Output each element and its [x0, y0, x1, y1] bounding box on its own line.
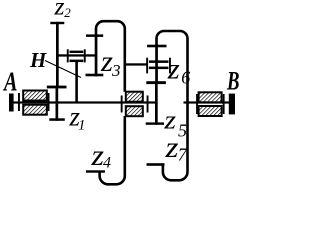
svg-text:B: B — [226, 67, 239, 96]
gear z6 top cap (mesh with ring z7) — [147, 45, 166, 48]
bearing A right shoulder dash — [48, 93, 50, 111]
gear z2 line — [56, 22, 59, 88]
wire main axis B-side — [184, 101, 230, 103]
label H leader line — [45, 61, 81, 78]
svg-text:z: z — [167, 53, 180, 86]
gear z6 line — [155, 45, 158, 83]
carrier right bearing left dash — [146, 58, 148, 74]
svg-text:6: 6 — [181, 68, 190, 88]
gear z3 line — [95, 35, 98, 76]
gear z5 bottom cap — [146, 122, 164, 124]
middle bearing right shoulder dash — [147, 96, 149, 113]
gear z1 bottom cap — [49, 118, 65, 121]
gear z3 top cap (mesh with ring z4) — [86, 34, 103, 37]
svg-text:4: 4 — [103, 155, 111, 172]
bearing B left shoulder dash — [196, 94, 198, 114]
ring z7 housing outline — [157, 31, 188, 180]
bearing B right shoulder dash — [223, 94, 225, 114]
svg-text:H: H — [29, 48, 47, 72]
gear z1-z2 mesh cap — [47, 86, 67, 89]
right planet shaft — [125, 63, 147, 65]
svg-text:2: 2 — [64, 5, 71, 20]
gear z2 top cap — [50, 22, 64, 24]
svg-text:z: z — [163, 105, 176, 134]
bearing A lower block — [23, 105, 47, 115]
middle bearing upper block — [126, 92, 143, 102]
carrier right bearing bottom bar — [149, 67, 169, 70]
bearing B lower block — [199, 106, 222, 116]
carrier H bearing top bar — [70, 51, 84, 53]
shaft B end bar — [229, 94, 235, 115]
bearing B upper block — [199, 92, 222, 102]
svg-text:1: 1 — [78, 117, 86, 133]
left planet shaft — [57, 54, 96, 56]
middle bearing lower block — [126, 106, 143, 116]
bearing A left shoulder dash — [18, 93, 20, 111]
bearing A upper block — [23, 91, 47, 101]
svg-text:3: 3 — [111, 61, 121, 80]
carrier H arm — [75, 62, 78, 102]
ring z4 bottom tick — [86, 170, 105, 172]
ring z7 bottom tick — [147, 163, 165, 166]
carrier right bearing top bar — [149, 60, 169, 63]
shaft A end bar — [9, 94, 14, 112]
middle bearing left shoulder dash — [121, 96, 123, 113]
svg-text:A: A — [3, 67, 18, 97]
gear z3 bottom cap — [86, 74, 104, 77]
carrier H bearing right dash — [84, 49, 86, 62]
wire main axis A-side — [9, 101, 157, 103]
ring z4 housing outline upper — [96, 21, 125, 92]
gear z1 line — [56, 86, 59, 121]
gear z6-z5 mesh cap — [146, 81, 166, 84]
carrier H bearing left dash — [67, 49, 69, 62]
carrier H bearing bottom bar — [70, 60, 84, 63]
carrier right bearing right dash — [169, 58, 171, 74]
svg-text:5: 5 — [178, 121, 187, 141]
svg-text:z: z — [53, 0, 64, 21]
svg-text:z: z — [164, 131, 178, 164]
gear z5 line — [155, 82, 158, 125]
svg-text:7: 7 — [178, 145, 188, 165]
ring z4 housing outline lower — [100, 116, 125, 184]
